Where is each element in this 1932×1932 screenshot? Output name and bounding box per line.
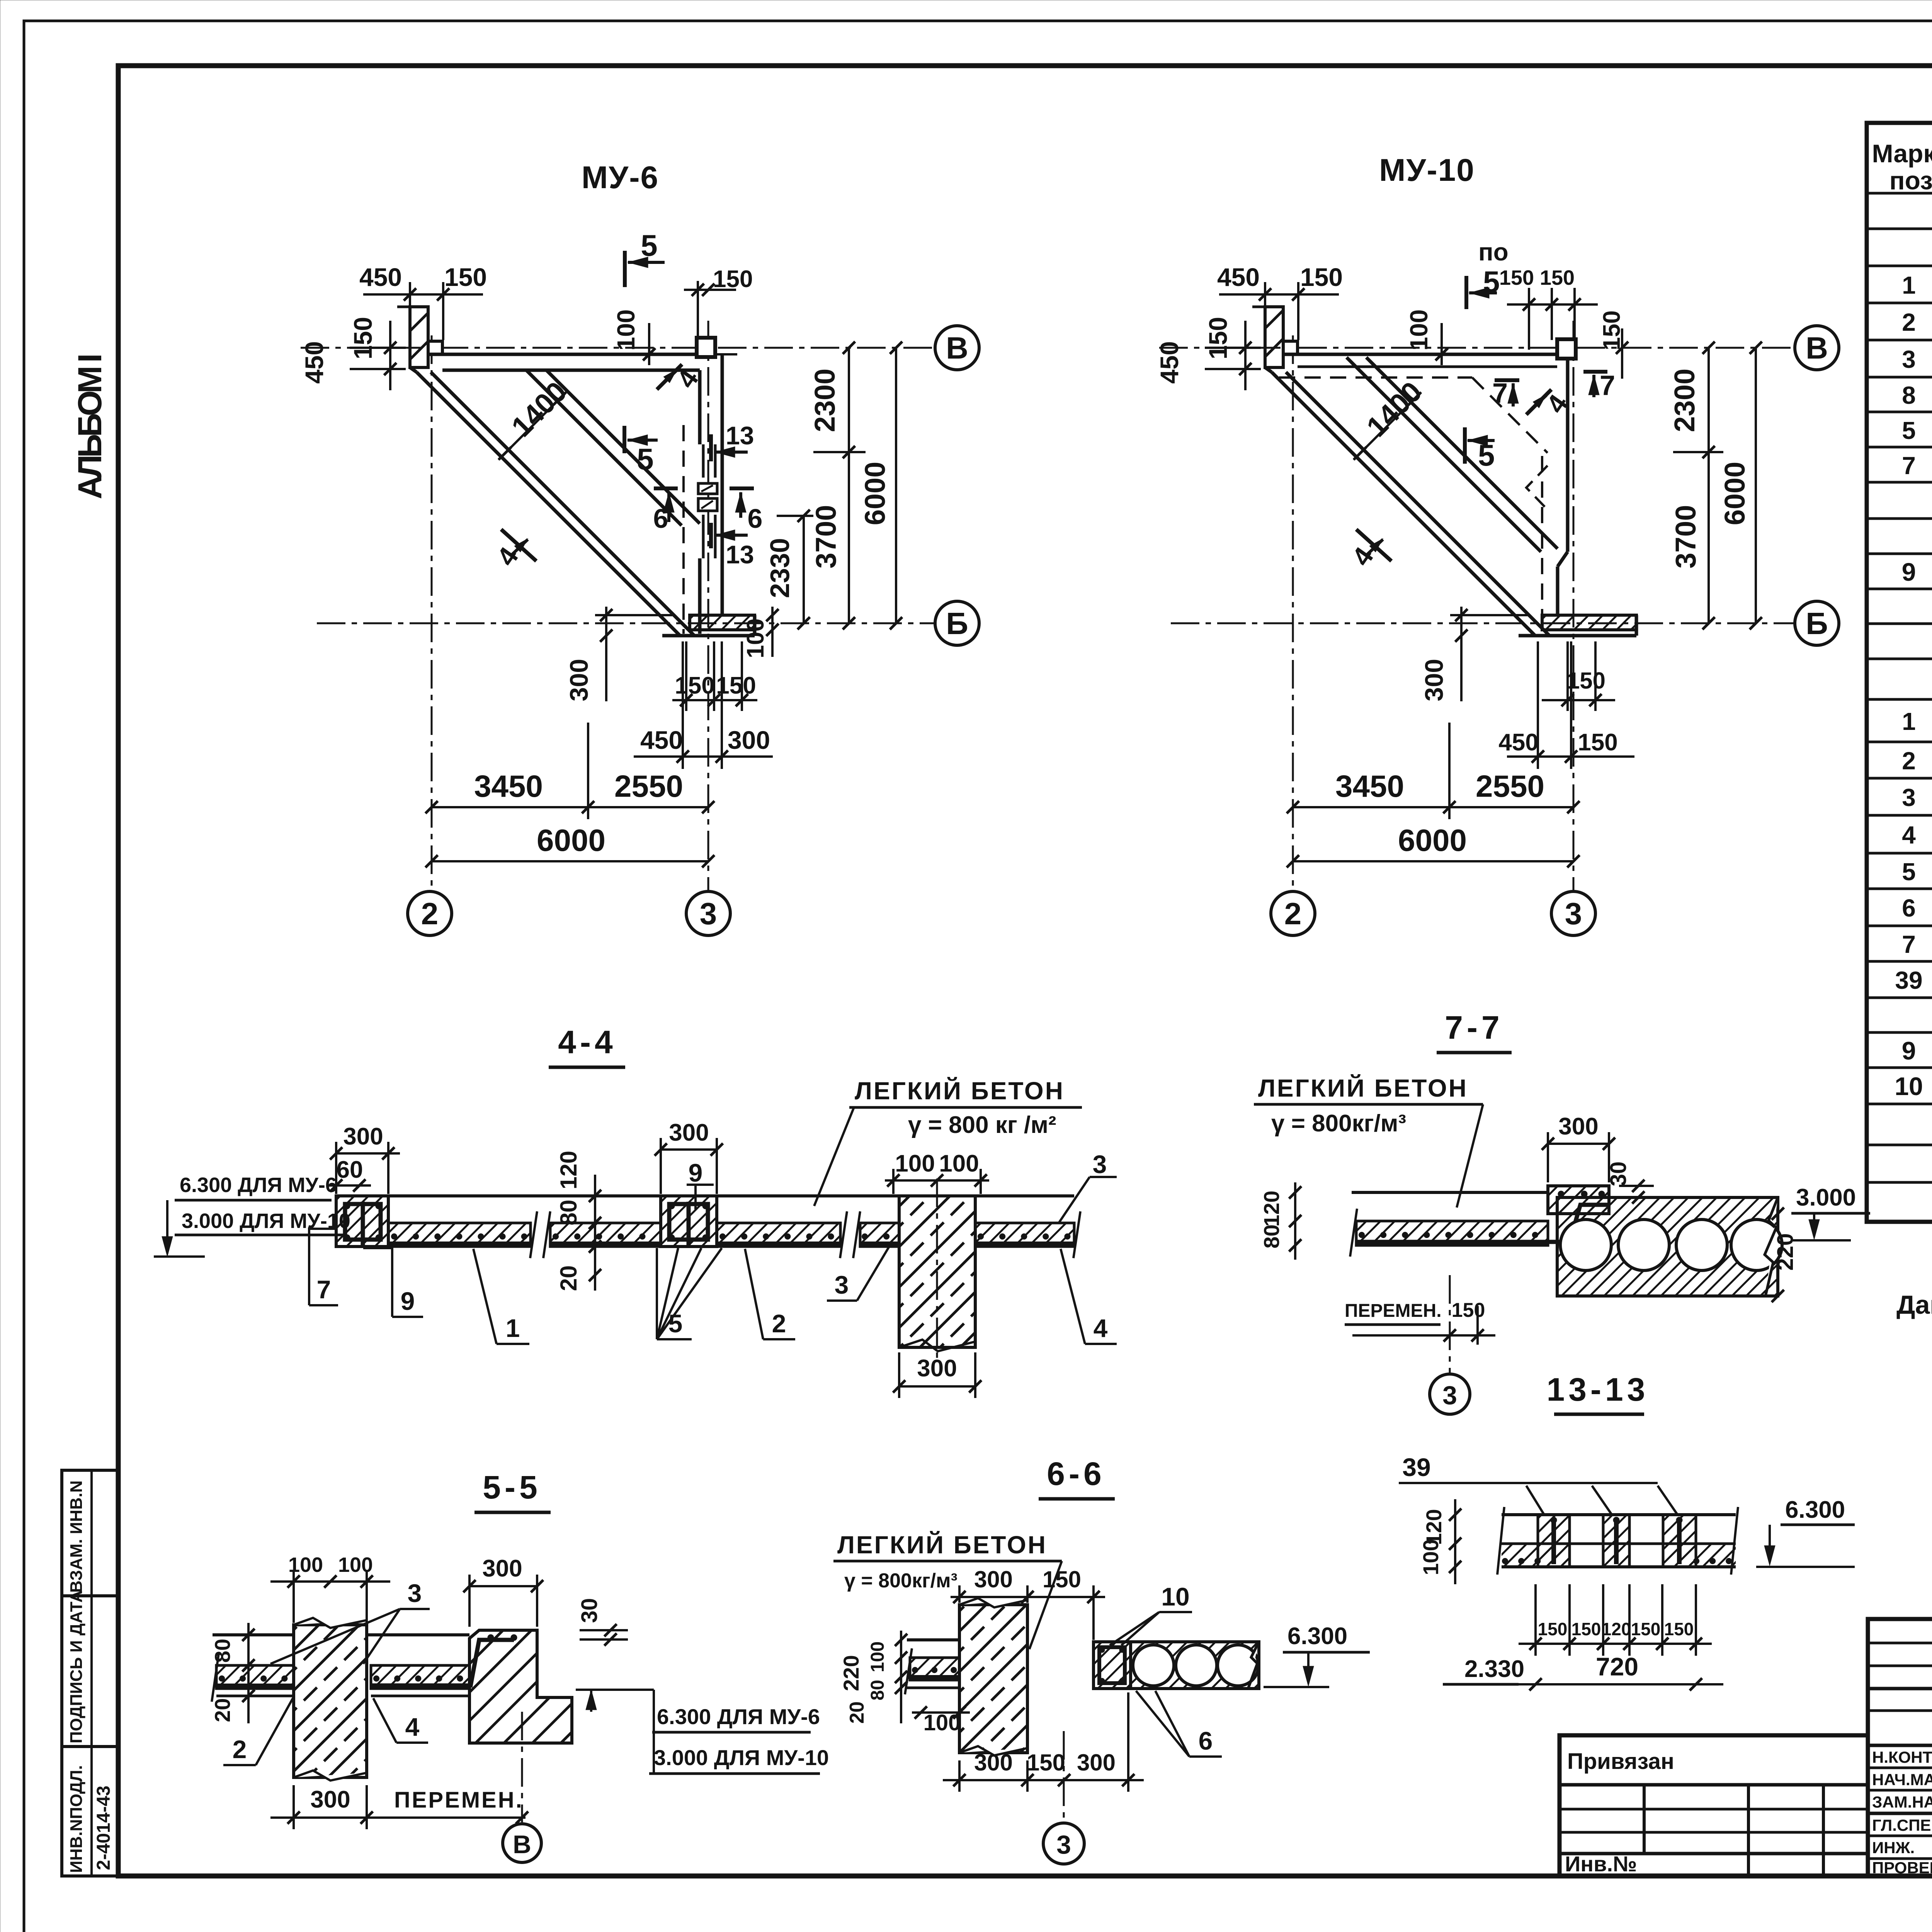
details МУ-6	[1895, 1001, 1932, 1217]
grid bubble 2	[1271, 891, 1315, 935]
slab top edge	[1283, 353, 1568, 356]
svg-text:МУ-6: МУ-6	[582, 160, 659, 195]
svg-text:3: 3	[1056, 1830, 1071, 1859]
svg-text:6: 6	[1902, 894, 1916, 922]
svg-text:8: 8	[1902, 381, 1916, 409]
svg-text:220: 220	[1773, 1233, 1798, 1271]
svg-text:3.000: 3.000	[1796, 1184, 1856, 1211]
svg-text:Б: Б	[946, 606, 968, 641]
svg-text:5: 5	[637, 442, 653, 476]
svg-text:20: 20	[846, 1701, 868, 1724]
section mark 13 lower	[709, 523, 713, 548]
svg-text:3700: 3700	[810, 505, 842, 569]
svg-text:80: 80	[867, 1680, 888, 1700]
dashed inner edge	[682, 425, 685, 634]
svg-text:150: 150	[1578, 729, 1617, 756]
dim 100 below left slab	[912, 1711, 970, 1714]
svg-text:2550: 2550	[1476, 769, 1544, 803]
svg-text:3: 3	[1093, 1150, 1107, 1179]
slab top edge	[428, 353, 708, 356]
column hatched	[899, 1196, 975, 1347]
right dim 2300 3700	[848, 348, 850, 623]
svg-text:150: 150	[1540, 266, 1575, 289]
svg-text:4-4: 4-4	[558, 1024, 616, 1060]
monolithic cap	[1548, 1186, 1609, 1214]
svg-text:6: 6	[748, 503, 763, 534]
svg-text:Привязан: Привязан	[1567, 1749, 1674, 1774]
svg-text:5: 5	[1902, 417, 1916, 444]
svg-text:450: 450	[300, 341, 328, 384]
svg-text:6-6: 6-6	[1047, 1456, 1105, 1492]
svg-text:2.330: 2.330	[1464, 1656, 1524, 1682]
top-left column hatched	[410, 307, 428, 367]
svg-text:150: 150	[1631, 1619, 1661, 1639]
svg-text:2: 2	[772, 1309, 786, 1338]
small square on column	[428, 341, 442, 354]
dim line 6000 bottom	[432, 860, 708, 862]
svg-text:150: 150	[675, 672, 714, 699]
svg-text:150: 150	[1571, 1619, 1601, 1639]
svg-text:300: 300	[482, 1555, 522, 1582]
dim 450 300 mid	[634, 755, 773, 758]
dim 300 cap	[1548, 1143, 1609, 1145]
svg-text:300: 300	[669, 1119, 709, 1146]
dim line 6000 bottom	[1293, 860, 1573, 862]
dim 300 60 left top	[336, 1152, 400, 1155]
axis 3 dash-dot	[1573, 321, 1575, 891]
axis B dash-dot	[1171, 622, 1794, 624]
axis 2 dash-dot	[431, 335, 433, 891]
svg-text:ЛЕГКИЙ БЕТОН: ЛЕГКИЙ БЕТОН	[1258, 1074, 1468, 1102]
svg-text:2: 2	[1902, 747, 1916, 775]
svg-text:4: 4	[1094, 1314, 1108, 1342]
column hatched	[294, 1625, 367, 1777]
svg-text:9: 9	[689, 1158, 703, 1187]
slab strip 5 right of column	[975, 1223, 1074, 1247]
slab strip 3	[717, 1223, 840, 1247]
svg-text:150: 150	[1599, 310, 1625, 350]
svg-text:100: 100	[939, 1150, 979, 1177]
svg-text:Данный лист смотреть сов: Данный лист смотреть совместно с л. АС-2…	[1896, 1290, 1932, 1320]
svg-text:6.300: 6.300	[1785, 1497, 1845, 1523]
svg-text:2330: 2330	[765, 538, 795, 598]
axis 3 dash-dot	[707, 321, 709, 891]
svg-text:6000: 6000	[859, 462, 891, 526]
svg-text:2550: 2550	[614, 769, 683, 803]
slab top surface	[336, 1194, 1074, 1197]
svg-text:7: 7	[1902, 930, 1916, 958]
grid bubble B	[1795, 601, 1839, 645]
svg-text:100: 100	[612, 310, 640, 351]
dim 150 450 left rotated	[389, 321, 391, 390]
dim line 3450 2550	[432, 806, 708, 808]
section mark 7 left	[1495, 378, 1519, 382]
svg-text:НАЧ.МАСТ.: НАЧ.МАСТ.	[1872, 1770, 1932, 1789]
title block left thin rows	[1868, 1643, 1932, 1859]
svg-text:4: 4	[405, 1713, 420, 1741]
svg-text:450: 450	[1217, 263, 1260, 291]
svg-text:3450: 3450	[474, 769, 543, 803]
svg-text:9: 9	[1902, 558, 1916, 586]
dim 150 450 left rotated	[1244, 321, 1247, 390]
slab strip 2	[550, 1223, 661, 1247]
svg-text:80: 80	[1259, 1225, 1284, 1248]
section mark 4 bottom-left	[1356, 529, 1391, 561]
axis B dash-dot	[317, 622, 934, 624]
svg-text:Марка,: Марка,	[1872, 139, 1932, 168]
bottom bearing ledge hatched	[690, 615, 755, 630]
svg-text:4: 4	[1902, 821, 1916, 849]
svg-text:7-7: 7-7	[1445, 1009, 1503, 1046]
grid bubble 3	[686, 891, 730, 935]
svg-text:150: 150	[1452, 1299, 1485, 1321]
slab bottom edge	[662, 634, 755, 638]
svg-text:20: 20	[556, 1265, 582, 1291]
svg-text:1: 1	[506, 1314, 520, 1342]
grid bubble 3	[1551, 891, 1595, 935]
dashed chevron	[1526, 466, 1548, 510]
svg-text:7: 7	[1902, 452, 1916, 480]
svg-text:2300: 2300	[1668, 369, 1701, 432]
dim 450 150 top-left	[363, 293, 483, 296]
svg-text:80: 80	[556, 1200, 582, 1226]
left margin stamp: albom I	[71, 355, 109, 499]
dim line 3450 2550	[1293, 806, 1573, 808]
diagonal d1	[1272, 372, 1535, 636]
svg-text:300: 300	[343, 1123, 383, 1150]
svg-text:ЛЕГКИЙ БЕТОН: ЛЕГКИЙ БЕТОН	[837, 1531, 1047, 1559]
hatched block 2	[1603, 1515, 1629, 1567]
break pair 1	[530, 1211, 537, 1258]
svg-text:3450: 3450	[1335, 769, 1404, 803]
svg-text:150: 150	[444, 263, 487, 291]
svg-text:γ = 800кг/м³: γ = 800кг/м³	[1271, 1110, 1406, 1137]
title block shared rows	[1868, 1689, 1932, 1813]
svg-text:2: 2	[233, 1735, 247, 1764]
svg-text:2-4014-43: 2-4014-43	[94, 1786, 114, 1870]
section mark 4 top-right	[1526, 389, 1551, 415]
right dim 6000	[1755, 348, 1757, 623]
svg-text:150: 150	[1567, 668, 1605, 694]
svg-text:100: 100	[338, 1553, 373, 1577]
hollow core slab	[1131, 1642, 1259, 1689]
svg-text:В: В	[1806, 331, 1828, 365]
grid bubble 2	[408, 891, 452, 935]
slab left bottom corner edge	[1265, 367, 1272, 372]
svg-text:300: 300	[974, 1750, 1013, 1776]
section mark 4 bottom-left	[501, 529, 536, 561]
svg-text:150: 150	[1538, 1619, 1568, 1639]
svg-text:300: 300	[1420, 659, 1448, 701]
dim 150 below ledge	[1542, 699, 1615, 701]
svg-text:20: 20	[210, 1698, 235, 1722]
strip slot upper	[702, 444, 705, 478]
strip slot lower	[702, 515, 705, 558]
diagonal d3	[526, 370, 682, 526]
svg-text:5-5: 5-5	[483, 1469, 541, 1505]
svg-text:5: 5	[641, 228, 657, 262]
svg-text:9: 9	[1902, 1036, 1916, 1065]
dim 300 peremen bottom	[270, 1816, 526, 1819]
left slab	[907, 1638, 959, 1641]
svg-text:6.300 ДЛЯ МУ-6: 6.300 ДЛЯ МУ-6	[657, 1704, 820, 1729]
svg-text:100: 100	[742, 618, 769, 658]
section mark 6 right	[730, 486, 754, 490]
svg-text:6000: 6000	[1398, 823, 1467, 857]
svg-text:450: 450	[1498, 729, 1538, 756]
joint rect 2	[698, 498, 717, 511]
wall hatched	[959, 1605, 1027, 1753]
svg-text:7: 7	[1600, 370, 1615, 401]
svg-text:150: 150	[713, 266, 753, 293]
svg-text:100: 100	[923, 1710, 961, 1735]
dashed diagonal	[1472, 378, 1548, 453]
dim 1400 across band	[1354, 392, 1421, 460]
right strip left edge	[698, 370, 702, 444]
svg-text:Б: Б	[1806, 606, 1828, 641]
svg-text:100: 100	[1418, 1539, 1443, 1575]
svg-text:100: 100	[288, 1553, 323, 1577]
svg-text:АЛЬБОМ I: АЛЬБОМ I	[71, 355, 109, 499]
diagonal d1	[417, 372, 680, 636]
svg-text:9: 9	[401, 1287, 415, 1315]
svg-text:6: 6	[653, 503, 668, 534]
svg-text:5: 5	[1902, 858, 1916, 886]
svg-text:3: 3	[1565, 896, 1582, 931]
diagonal d4	[546, 370, 700, 524]
hatched block 1	[1538, 1515, 1570, 1567]
section mark 5 top	[623, 251, 627, 287]
monolithic block	[1094, 1642, 1131, 1689]
dims 300 150 300 bottom	[943, 1779, 1144, 1781]
slab strip 1	[388, 1223, 531, 1247]
top edge thin extension	[714, 353, 737, 355]
diagonal d2	[431, 372, 694, 636]
svg-text:120: 120	[1602, 1619, 1631, 1639]
svg-text:150: 150	[1300, 263, 1343, 291]
svg-text:6.300 ДЛЯ МУ-6: 6.300 ДЛЯ МУ-6	[180, 1173, 337, 1197]
svg-text:150: 150	[1043, 1566, 1081, 1592]
hatched block 3	[1663, 1515, 1696, 1567]
svg-text:100: 100	[867, 1641, 888, 1672]
left break	[1350, 1209, 1357, 1257]
svg-text:ЛЕГКИЙ БЕТОН: ЛЕГКИЙ БЕТОН	[855, 1077, 1065, 1105]
svg-text:13: 13	[726, 421, 754, 450]
right edge vertical lower	[1556, 566, 1560, 615]
svg-text:300: 300	[310, 1786, 350, 1813]
dim 300 top block	[469, 1585, 537, 1587]
svg-text:Н.КОНТР.: Н.КОНТР.	[1872, 1748, 1932, 1766]
svg-text:7: 7	[317, 1275, 331, 1304]
svg-text:1: 1	[1902, 707, 1916, 735]
dim 450 150 top-left	[1219, 293, 1339, 296]
svg-text:150: 150	[1499, 266, 1534, 289]
table header texts	[1872, 139, 1932, 195]
svg-text:450: 450	[640, 726, 683, 754]
diagonal d2	[1286, 372, 1549, 636]
mid beam block	[661, 1196, 717, 1247]
svg-text:13-13: 13-13	[1547, 1371, 1649, 1408]
svg-text:3: 3	[1902, 784, 1916, 811]
svg-text:39: 39	[1402, 1453, 1430, 1481]
axis V dash-dot	[1159, 347, 1794, 349]
svg-text:ИНВ.NПОДЛ.: ИНВ.NПОДЛ.	[67, 1765, 86, 1873]
grid bubble B	[935, 601, 979, 645]
right edge chamfer	[1558, 552, 1568, 566]
svg-text:3.000 ДЛЯ МУ-10: 3.000 ДЛЯ МУ-10	[654, 1745, 829, 1770]
svg-text:100: 100	[895, 1150, 935, 1177]
grid bubble V	[935, 326, 979, 370]
axis stem and bubble 3	[1449, 1275, 1451, 1374]
bent rebar	[1356, 1205, 1607, 1242]
svg-text:60: 60	[337, 1156, 363, 1183]
svg-text:30: 30	[577, 1598, 602, 1623]
axis stem and bubble V	[521, 1712, 523, 1822]
left slab strip	[1356, 1221, 1548, 1245]
left margin cell inv N podl	[62, 1747, 118, 1876]
diagonal d3	[1347, 357, 1541, 552]
section mark 5 inner	[1463, 427, 1467, 464]
right edge vertical upper	[1566, 354, 1570, 552]
dim 300 column bottom	[899, 1385, 975, 1388]
svg-text:6000: 6000	[1719, 462, 1751, 526]
section mark 13 upper	[709, 434, 713, 461]
svg-text:80: 80	[210, 1639, 235, 1663]
svg-text:1: 1	[1902, 271, 1916, 299]
svg-text:3: 3	[1902, 345, 1916, 373]
svg-text:150: 150	[1204, 317, 1232, 359]
svg-text:γ = 800кг/м³: γ = 800кг/м³	[844, 1570, 957, 1592]
svg-text:ЗАМ.НАЧ: ЗАМ.НАЧ	[1872, 1793, 1932, 1811]
svg-text:720: 720	[1596, 1652, 1638, 1681]
dim 450 150 mid	[1507, 755, 1634, 758]
slab bottom edge	[1519, 634, 1636, 638]
svg-text:30: 30	[1606, 1162, 1631, 1187]
svg-text:150: 150	[349, 317, 377, 359]
dim 2330	[803, 516, 805, 623]
svg-text:150: 150	[1664, 1619, 1694, 1639]
axis V dash-dot	[301, 347, 934, 349]
right slab	[367, 1633, 469, 1636]
svg-text:120: 120	[556, 1151, 582, 1189]
svg-text:13: 13	[726, 540, 754, 569]
dim 150 top right	[684, 289, 736, 291]
dim 100 100 column	[885, 1179, 989, 1182]
dim 300 bottom ledge	[1460, 607, 1463, 701]
svg-text:МУ-10: МУ-10	[1379, 153, 1475, 188]
dim 150 right rotated	[1621, 328, 1623, 379]
dim 1400 across band	[498, 392, 566, 460]
left margin cell vzam inv N	[62, 1470, 118, 1596]
dim 100 right of ledge	[771, 607, 774, 657]
section mark 6 left	[654, 486, 678, 490]
strip rebar dots 1	[394, 1233, 526, 1240]
dim 120 80 20 stack	[594, 1175, 596, 1291]
top-left column hatched	[1265, 307, 1283, 367]
svg-text:6.300: 6.300	[1287, 1623, 1347, 1650]
svg-text:300: 300	[974, 1566, 1013, 1592]
slab strip 4	[860, 1223, 899, 1247]
svg-text:ПЕРЕМЕН.: ПЕРЕМЕН.	[394, 1787, 524, 1813]
grid bubble V	[1795, 326, 1839, 370]
diagonal d4	[1366, 357, 1558, 549]
left end beam block	[336, 1196, 388, 1247]
svg-text:3: 3	[1442, 1381, 1457, 1410]
top-right column square	[1557, 339, 1576, 359]
dim 300 bottom ledge	[605, 607, 607, 701]
bottom hatch strips	[1502, 1544, 1570, 1567]
svg-text:2: 2	[421, 896, 439, 931]
svg-text:Инв.№: Инв.№	[1565, 1852, 1637, 1876]
svg-text:2: 2	[1284, 896, 1302, 931]
left slab top	[1352, 1191, 1548, 1194]
dashed top inner edge	[1279, 376, 1472, 379]
svg-text:10: 10	[1895, 1072, 1923, 1100]
svg-text:3: 3	[408, 1579, 422, 1607]
svg-text:150: 150	[1027, 1750, 1065, 1776]
svg-text:300: 300	[728, 726, 770, 754]
note: see sheet with AC-22	[1896, 1290, 1932, 1320]
svg-text:3: 3	[700, 896, 717, 931]
level labels	[576, 1689, 654, 1691]
axis 2 dash-dot	[1292, 335, 1294, 891]
svg-text:300: 300	[917, 1355, 957, 1382]
svg-text:2: 2	[1902, 308, 1916, 336]
svg-text:39: 39	[1895, 966, 1922, 994]
dim 100 100 top	[270, 1580, 390, 1583]
top-right column square	[697, 338, 715, 357]
svg-text:ИНЖ.: ИНЖ.	[1872, 1838, 1915, 1857]
svg-text:100: 100	[1405, 310, 1433, 351]
right dim 2300 3700	[1708, 348, 1710, 623]
svg-text:220: 220	[839, 1655, 863, 1691]
table outer border	[1867, 123, 1932, 1222]
svg-text:450: 450	[1155, 341, 1184, 384]
hollow core slab	[1557, 1197, 1778, 1296]
bearing block	[469, 1630, 572, 1743]
joint rect 1	[698, 483, 717, 494]
svg-text:6000: 6000	[537, 823, 605, 857]
slab left bottom corner edge	[410, 367, 417, 372]
svg-text:300: 300	[1077, 1750, 1116, 1776]
left margin cell podpis i data	[62, 1590, 118, 1747]
svg-text:поз.: поз.	[1889, 166, 1932, 195]
details МУ-10	[1902, 522, 1932, 656]
svg-text:В: В	[946, 331, 968, 365]
svg-text:5: 5	[1483, 265, 1500, 299]
right dim 6000	[895, 348, 897, 623]
svg-text:3700: 3700	[1670, 505, 1702, 569]
svg-text:10: 10	[1161, 1582, 1189, 1611]
break pair 2	[840, 1211, 847, 1258]
svg-text:5: 5	[1478, 438, 1495, 472]
svg-text:6: 6	[1199, 1726, 1213, 1755]
svg-text:3: 3	[835, 1270, 849, 1299]
svg-text:300: 300	[565, 659, 593, 701]
small square on column	[1283, 341, 1298, 354]
dim 300 mid with 9	[661, 1148, 717, 1151]
svg-text:7: 7	[1492, 378, 1508, 409]
table row lines	[1867, 193, 1932, 1182]
dim 150 150 top right	[1507, 303, 1598, 306]
end breaks	[1497, 1507, 1504, 1575]
dims 150 150 120 150 150	[1519, 1643, 1712, 1645]
svg-text:2300: 2300	[809, 369, 841, 432]
dims 300 150 top	[951, 1596, 1105, 1598]
svg-text:120: 120	[1259, 1190, 1284, 1226]
svg-text:В: В	[513, 1830, 531, 1859]
svg-text:ПОДПИСЬ И ДАТА: ПОДПИСЬ И ДАТА	[67, 1590, 86, 1743]
